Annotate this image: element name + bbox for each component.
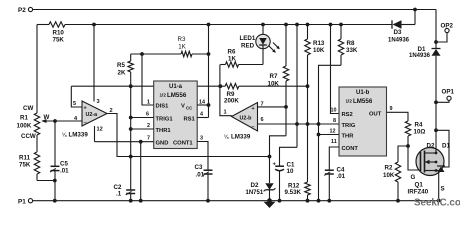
svg-text:1/2: 1/2 xyxy=(346,99,353,104)
svg-text:OP1: OP1 xyxy=(442,89,455,96)
svg-text:100K: 100K xyxy=(17,123,32,130)
wire C1 riser xyxy=(280,25,298,167)
svg-text:9: 9 xyxy=(390,106,393,112)
svg-text:R2: R2 xyxy=(385,165,393,172)
junction column nodes xyxy=(129,116,133,159)
resistor R7 xyxy=(268,25,289,136)
ground xyxy=(264,202,276,208)
svg-text:R11: R11 xyxy=(19,155,31,162)
wire U2-b output riser xyxy=(220,65,232,116)
svg-text:6: 6 xyxy=(146,112,149,118)
svg-text:R8: R8 xyxy=(347,40,355,47)
svg-text:IRFZ40: IRFZ40 xyxy=(408,189,429,196)
resistor R5 xyxy=(117,61,133,77)
svg-text:10: 10 xyxy=(331,108,337,114)
svg-text:LM339: LM339 xyxy=(69,132,89,139)
svg-text:75K: 75K xyxy=(19,162,31,169)
wire U2-a pin5 feedback xyxy=(71,86,82,107)
junction bottom rail nodes xyxy=(53,198,441,203)
svg-text:+: + xyxy=(84,105,87,111)
svg-text:33K: 33K xyxy=(346,47,358,54)
svg-text:CONT: CONT xyxy=(342,146,359,152)
svg-text:P1: P1 xyxy=(18,198,26,205)
svg-text:U2-a: U2-a xyxy=(86,112,99,118)
svg-text:TRIG: TRIG xyxy=(342,123,356,129)
wire body-diode stub xyxy=(427,130,451,167)
svg-text:10K: 10K xyxy=(268,81,280,88)
capacitor C2 xyxy=(114,184,136,198)
wire R7 to D2 xyxy=(268,136,286,183)
svg-text:1N4936: 1N4936 xyxy=(388,38,410,44)
svg-text:RS2: RS2 xyxy=(342,112,353,118)
svg-text:.01: .01 xyxy=(196,172,205,179)
svg-text:GND: GND xyxy=(156,141,169,147)
wire U2-b pin7 xyxy=(258,105,288,109)
resistor R11 xyxy=(19,135,40,181)
svg-text:R7: R7 xyxy=(270,73,278,80)
wire DIS1 xyxy=(142,54,154,105)
svg-text:RED: RED xyxy=(241,43,255,50)
svg-text:R6: R6 xyxy=(228,49,236,56)
svg-text:CCW: CCW xyxy=(21,133,36,140)
diode D3 xyxy=(388,20,410,43)
wire trigger line xyxy=(258,122,339,126)
svg-text:7: 7 xyxy=(147,136,150,142)
svg-text:TRIG1: TRIG1 xyxy=(156,117,174,123)
wire drain column top xyxy=(435,10,437,49)
svg-text:R3: R3 xyxy=(178,36,186,43)
svg-text:200K: 200K xyxy=(224,98,239,105)
svg-text:G: G xyxy=(411,174,416,181)
svg-text:OP2: OP2 xyxy=(441,22,454,29)
zener D2 xyxy=(246,182,276,201)
svg-text:LM339: LM339 xyxy=(231,133,251,140)
svg-text:75K: 75K xyxy=(53,37,65,44)
svg-text:1K: 1K xyxy=(228,56,236,63)
wire U2-a pin3 supply xyxy=(93,25,95,102)
resistor R10 xyxy=(49,22,65,44)
svg-text:.01: .01 xyxy=(60,168,69,175)
svg-text:2: 2 xyxy=(147,123,150,129)
op-amp U2-a xyxy=(62,99,113,139)
wire VCC pin14 xyxy=(197,103,210,107)
svg-text:LM556: LM556 xyxy=(353,98,373,105)
wire RS2 supply column xyxy=(331,25,340,114)
svg-text:1N751: 1N751 xyxy=(246,190,264,196)
svg-text:LM556: LM556 xyxy=(167,92,187,99)
wire OUT pin9 xyxy=(387,112,409,121)
wire U2-a gnd pin12 xyxy=(94,126,96,142)
svg-text:3: 3 xyxy=(97,99,100,105)
wire source xyxy=(438,171,440,201)
svg-text:CC: CC xyxy=(186,106,193,111)
svg-text:R4: R4 xyxy=(415,122,423,129)
junction bus nodes xyxy=(129,84,310,88)
svg-text:¼: ¼ xyxy=(62,132,67,139)
wire VCC/RS1 column xyxy=(208,25,210,118)
watermark xyxy=(414,198,460,209)
svg-text:–: – xyxy=(252,125,255,131)
capacitor C5 xyxy=(50,121,69,201)
capacitor C4 xyxy=(324,167,345,201)
svg-text:RS1: RS1 xyxy=(184,117,196,123)
wire D3 anode riser xyxy=(414,10,416,25)
svg-text:5: 5 xyxy=(73,101,76,107)
resistor R2 xyxy=(383,162,401,201)
capacitor C3 xyxy=(195,164,213,201)
terminal P1 xyxy=(18,198,33,205)
svg-text:–: – xyxy=(84,120,87,126)
svg-text:4: 4 xyxy=(200,112,203,118)
wire TRIG1 xyxy=(131,117,154,119)
svg-text:D2: D2 xyxy=(251,182,259,189)
svg-text:C5: C5 xyxy=(60,161,68,168)
svg-text:2K: 2K xyxy=(118,70,126,77)
svg-text:10Ω: 10Ω xyxy=(414,129,426,136)
wire gate feed xyxy=(406,136,419,170)
svg-text:+: + xyxy=(252,106,255,112)
svg-text:3: 3 xyxy=(200,136,203,142)
svg-text:S: S xyxy=(441,186,445,193)
wire CONT1 pin3 xyxy=(197,142,208,171)
transistor Q1 xyxy=(408,148,446,196)
resistor R12 xyxy=(285,182,311,196)
svg-text:10K: 10K xyxy=(383,172,395,179)
svg-text:.1: .1 xyxy=(116,191,122,198)
resistor R3 xyxy=(178,36,192,57)
svg-text:11: 11 xyxy=(331,139,337,145)
resistor R8 xyxy=(338,25,358,66)
resistor R4 xyxy=(405,121,425,136)
svg-text:R1: R1 xyxy=(20,115,28,122)
svg-text:U2-b: U2-b xyxy=(240,115,253,121)
svg-text:R13: R13 xyxy=(313,40,325,47)
svg-text:12: 12 xyxy=(97,127,103,133)
svg-text:.01: .01 xyxy=(337,173,346,180)
svg-text:U1-a: U1-a xyxy=(169,84,183,90)
svg-text:R10: R10 xyxy=(53,30,65,37)
wire R5-C2 column xyxy=(130,54,132,201)
terminal OP2 xyxy=(434,22,453,44)
wire CONT pin11 xyxy=(329,147,339,170)
svg-text:THR1: THR1 xyxy=(156,128,172,134)
terminal OP1 xyxy=(436,89,454,103)
svg-text:CONT1: CONT1 xyxy=(173,141,193,147)
svg-text:12: 12 xyxy=(330,129,336,135)
wire R11 to C5 node xyxy=(37,179,57,183)
op-amp U2-b xyxy=(224,102,264,141)
IC U1-a xyxy=(146,81,205,149)
resistor R9 xyxy=(224,84,239,105)
svg-text:1: 1 xyxy=(224,109,227,115)
wire R2 branch xyxy=(398,146,408,162)
wire hysteresis bus xyxy=(71,85,307,87)
resistor R13 xyxy=(305,39,325,55)
junction rail2 nodes xyxy=(92,23,343,27)
svg-text:D3: D3 xyxy=(394,29,402,36)
wire rail2 right of D3 xyxy=(403,24,415,26)
wire bottom rail (ground) xyxy=(33,200,441,202)
svg-text:8: 8 xyxy=(333,118,336,124)
svg-text:1/2: 1/2 xyxy=(160,93,167,98)
IC U1-b xyxy=(330,87,393,156)
wire gnd drop xyxy=(140,142,142,201)
svg-text:P2: P2 xyxy=(18,7,26,14)
wire RS1 pin4 xyxy=(197,117,208,119)
wire top rail xyxy=(33,9,436,11)
wire THR1 xyxy=(131,128,154,130)
svg-text:6: 6 xyxy=(261,117,264,123)
svg-text:10K: 10K xyxy=(313,47,325,54)
svg-text:10: 10 xyxy=(287,168,294,175)
wire R1 top feed xyxy=(36,25,38,114)
svg-text:V: V xyxy=(181,104,185,110)
capacitor C1 xyxy=(273,161,295,200)
diode D1 xyxy=(409,46,441,149)
svg-text:9.53K: 9.53K xyxy=(285,189,302,196)
svg-text:W: W xyxy=(44,114,50,121)
wire rail2 (V+ bus) xyxy=(37,24,392,26)
wire R13/R12 column xyxy=(307,25,309,201)
junction top rail / D3 branch xyxy=(413,8,417,12)
svg-text:CW: CW xyxy=(23,105,33,112)
wire U2-a output xyxy=(107,114,269,157)
wire gnd link to U1-a pin7 xyxy=(95,140,154,144)
svg-text:1K: 1K xyxy=(178,44,186,51)
svg-text:1N4936: 1N4936 xyxy=(409,53,431,59)
svg-text:R5: R5 xyxy=(117,62,125,69)
resistor R6 xyxy=(220,49,263,68)
svg-text:Q1: Q1 xyxy=(415,182,424,189)
wire THR link xyxy=(319,134,340,136)
svg-text:DIS1: DIS1 xyxy=(156,104,170,110)
svg-text:U1-b: U1-b xyxy=(356,90,370,96)
svg-text:OUT: OUT xyxy=(369,112,382,118)
svg-text:D1: D1 xyxy=(442,143,450,150)
svg-text:¼: ¼ xyxy=(224,133,229,140)
LED LED1 xyxy=(240,25,280,65)
potentiometer R1 xyxy=(17,105,83,140)
wire DIS1 top link xyxy=(131,52,211,56)
svg-text:1: 1 xyxy=(147,100,150,106)
svg-text:C3: C3 xyxy=(195,164,203,171)
svg-text:LED1: LED1 xyxy=(240,35,256,42)
wire R8 jog to timing net xyxy=(317,65,341,200)
svg-text:THR: THR xyxy=(342,134,355,140)
terminal P2 xyxy=(18,7,33,14)
junction wiper / C5 xyxy=(53,119,57,123)
svg-text:SeekIC.com: SeekIC.com xyxy=(414,198,460,208)
